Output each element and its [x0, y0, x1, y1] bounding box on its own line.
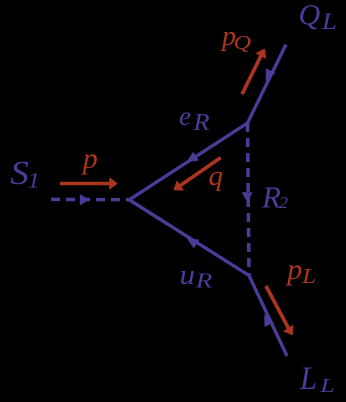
svg-text:R: R: [261, 180, 281, 215]
svg-text:p: p: [81, 142, 98, 175]
svg-text:L: L: [321, 9, 337, 34]
svg-text:Q: Q: [234, 32, 252, 54]
svg-text:Q: Q: [299, 0, 321, 32]
svg-text:R: R: [195, 268, 213, 292]
svg-text:u: u: [180, 260, 196, 291]
svg-text:L: L: [299, 361, 317, 397]
svg-text:R: R: [192, 110, 209, 136]
svg-text:p: p: [285, 253, 302, 286]
svg-text:q: q: [209, 160, 224, 192]
svg-text:L: L: [319, 375, 335, 397]
svg-text:L: L: [301, 264, 316, 288]
svg-text:1: 1: [28, 167, 41, 192]
svg-text:S: S: [10, 155, 29, 192]
svg-text:e: e: [179, 101, 191, 131]
svg-text:2: 2: [279, 193, 289, 212]
